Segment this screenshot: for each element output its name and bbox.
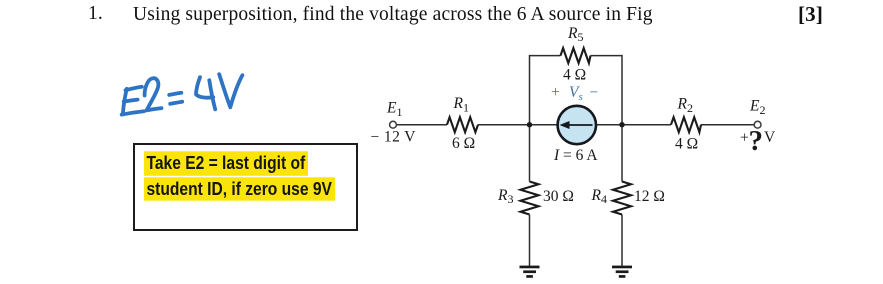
- svg-text:30 Ω: 30 Ω: [543, 188, 574, 205]
- svg-text:R5: R5: [567, 25, 583, 44]
- svg-text:12 Ω: 12 Ω: [634, 188, 665, 205]
- svg-text:E1: E1: [386, 100, 402, 119]
- svg-text:6 Ω: 6 Ω: [452, 135, 475, 152]
- svg-text:V: V: [764, 129, 776, 146]
- svg-text:?: ?: [749, 125, 764, 157]
- svg-text:R3: R3: [497, 187, 513, 206]
- svg-text:− 12 V: − 12 V: [371, 129, 417, 146]
- svg-text:E2: E2: [749, 98, 765, 117]
- svg-text:+: +: [740, 130, 749, 147]
- svg-text:4 Ω: 4 Ω: [563, 67, 586, 84]
- svg-text:R4: R4: [591, 187, 607, 206]
- svg-text:I = 6 A: I = 6 A: [553, 147, 598, 164]
- svg-text:4 Ω: 4 Ω: [675, 136, 698, 153]
- svg-text:+Vs−: +Vs−: [551, 84, 598, 103]
- svg-text:R1: R1: [453, 95, 469, 114]
- svg-text:R2: R2: [677, 96, 693, 115]
